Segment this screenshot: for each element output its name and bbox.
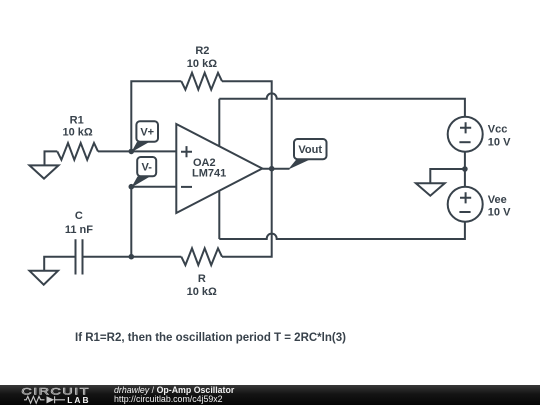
footer bar: [0, 385, 540, 406]
svg-text:R1: R1: [70, 114, 84, 126]
op-amp minus input marker: [181, 186, 192, 188]
footer credit text: [114, 386, 234, 405]
capacitor C plates: [76, 239, 83, 274]
svg-text:If R1=R2, then the oscillation: If R1=R2, then the oscillation period T …: [75, 332, 346, 344]
resistor R1: [57, 143, 98, 160]
svg-text:11 nF: 11 nF: [65, 224, 93, 236]
junction dot V+ node: [129, 149, 135, 155]
svg-text:Vout: Vout: [298, 144, 322, 156]
svg-text:10 kΩ: 10 kΩ: [62, 126, 92, 138]
wire: C/R junction to R left lead: [131, 256, 181, 258]
net flag V- box: [137, 157, 156, 176]
voltage source Vee circle: [448, 187, 483, 222]
svg-text:10 kΩ: 10 kΩ: [187, 58, 217, 70]
wire: V- node to op-amp inverting input: [131, 186, 176, 188]
svg-text:LAB: LAB: [67, 394, 90, 404]
junction dot V- node: [129, 184, 135, 190]
ground at supply midpoint: [416, 183, 445, 195]
svg-text:V-: V-: [141, 162, 152, 174]
voltage source Vcc circle: [448, 117, 483, 152]
Vcc minus marker: [459, 141, 470, 143]
wire: R1 left lead to ground: [45, 151, 58, 165]
svg-text:10 V: 10 V: [488, 136, 511, 148]
svg-text:C: C: [75, 210, 83, 222]
net flag V+ pointer: [131, 142, 149, 152]
svg-text:LM741: LM741: [192, 168, 226, 180]
wire: Vcc rail with hop over output rail: [219, 93, 465, 116]
svg-text:Vee: Vee: [488, 194, 507, 206]
Vee plus marker: [460, 192, 471, 203]
Vcc plus marker: [460, 122, 471, 133]
wire: C left lead to ground: [44, 257, 75, 271]
svg-text:Vcc: Vcc: [488, 124, 508, 136]
net flag V+ box: [136, 121, 158, 141]
ground below R1: [30, 165, 59, 178]
wire: R2 right lead, output rail vertical, and lead to R: [222, 81, 272, 257]
resistor R: [181, 248, 222, 265]
Vee minus marker: [459, 211, 470, 213]
svg-text:R2: R2: [195, 45, 209, 57]
net flag Vout box: [294, 139, 327, 159]
net flag V- pointer: [131, 177, 150, 188]
op-amp positive supply pin: [218, 99, 220, 147]
op-amp plus input marker: [181, 146, 192, 157]
CircuitLab logo squiggle resistor and diode: [24, 396, 65, 403]
net flag Vout pointer: [288, 159, 311, 169]
wire: C right lead: [83, 256, 132, 258]
wire: ground stub at supplies: [430, 169, 465, 183]
wire: V+ node up to R2 left lead: [131, 81, 181, 151]
wire: Vee rail with hop over output rail: [219, 222, 465, 239]
op-amp negative supply pin: [218, 191, 220, 239]
junction dot supply ground node: [462, 166, 468, 172]
op-amp OA2 triangle: [176, 124, 262, 213]
svg-text:10 V: 10 V: [488, 206, 511, 218]
junction dot output node: [269, 166, 275, 172]
svg-text:R: R: [198, 273, 206, 285]
wire: Vcc bottom through ground node to Vee top: [464, 152, 466, 187]
junction dot C/R node: [129, 254, 135, 260]
wire: V- node down to C/R junction: [130, 187, 132, 257]
ground below C: [30, 271, 59, 285]
resistor R2: [181, 73, 222, 90]
svg-text:V+: V+: [140, 126, 154, 138]
svg-text:10 kΩ: 10 kΩ: [187, 286, 217, 298]
wire: R1 to op-amp noninverting input: [98, 150, 176, 152]
wire: op-amp output to Vout flag: [262, 168, 289, 170]
